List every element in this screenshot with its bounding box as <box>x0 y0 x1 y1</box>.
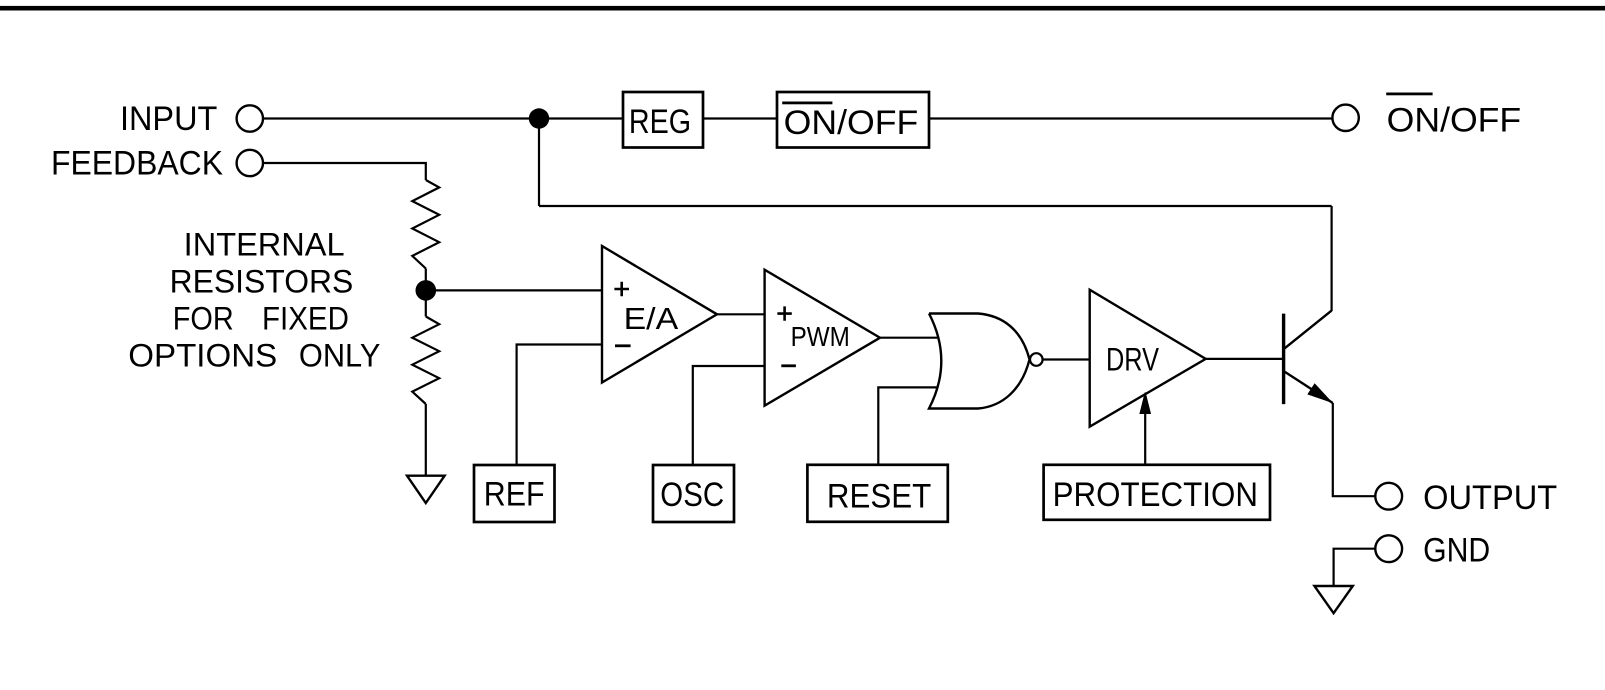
svg-text:DRV: DRV <box>1106 342 1160 378</box>
svg-text:OPTIONS: OPTIONS <box>128 337 277 373</box>
wire GND to ground <box>1334 549 1376 586</box>
wire INPUT to REG <box>263 117 623 119</box>
top border bar <box>0 6 1605 11</box>
transistor Q1 base bar <box>1282 314 1285 405</box>
svg-text:ON/OFF: ON/OFF <box>1387 102 1522 140</box>
comparator PWM <box>765 270 880 406</box>
terminal GND <box>1375 535 1402 562</box>
resistor R1 (upper divider) <box>412 180 439 269</box>
wire ON/OFF block to terminal <box>929 117 1332 119</box>
svg-text:E/A: E/A <box>624 301 679 336</box>
wire OSC to PWM - input <box>693 366 765 465</box>
gate output bubble <box>1030 353 1043 366</box>
wire collector riser <box>1330 206 1332 311</box>
wire emitter to OUTPUT <box>1333 403 1376 496</box>
svg-text:FIXED: FIXED <box>262 300 349 336</box>
wire R1 to node <box>425 269 427 282</box>
wire R2 to ground <box>425 404 427 476</box>
wire junction down <box>538 119 540 207</box>
transistor Q1 emitter <box>1285 372 1333 403</box>
svg-text:OUTPUT: OUTPUT <box>1423 479 1557 517</box>
terminal OUTPUT <box>1375 483 1402 510</box>
note text INTERNAL RESISTORS FOR FIXED OPTIONS ONLY <box>128 226 380 373</box>
wire RESET to gate <box>878 387 938 464</box>
wire DRV output to transistor base <box>1206 358 1284 360</box>
gate NOR <box>929 314 1030 409</box>
block RESET <box>807 465 947 522</box>
svg-text:REG: REG <box>629 103 691 141</box>
svg-text:OSC: OSC <box>660 476 724 514</box>
wire across top to collector riser <box>539 205 1332 207</box>
svg-text:ONLY: ONLY <box>299 337 381 373</box>
svg-text:FEEDBACK: FEEDBACK <box>51 145 223 183</box>
junction dot divider node <box>416 280 437 301</box>
block PROTECTION <box>1044 465 1270 520</box>
svg-text:ON/OFF: ON/OFF <box>784 104 919 142</box>
wire node to E/A + input <box>435 289 602 291</box>
wire node to R2 <box>425 299 427 317</box>
svg-text:INTERNAL: INTERNAL <box>184 226 345 262</box>
block REF <box>474 465 555 522</box>
terminal FEEDBACK <box>237 150 263 176</box>
wire PROTECTION arrow stem <box>1144 413 1146 465</box>
terminal INPUT <box>237 105 263 131</box>
wire PWM output to gate <box>880 337 938 339</box>
svg-text:REF: REF <box>484 476 545 514</box>
wire REG to ON/OFF block <box>703 117 777 119</box>
transistor Q1 collector <box>1285 311 1332 349</box>
resistor R2 (lower divider) <box>412 317 439 405</box>
op-amp E/A <box>602 246 717 383</box>
buffer DRV <box>1090 290 1206 427</box>
svg-text:GND: GND <box>1423 531 1490 569</box>
svg-text:RESISTORS: RESISTORS <box>170 263 354 299</box>
block ON/OFF <box>777 92 929 148</box>
ground (GND pin) <box>1314 586 1352 613</box>
block REG <box>623 92 703 148</box>
svg-text:FOR: FOR <box>173 300 234 336</box>
transistor Q1 emitter arrowhead <box>1308 384 1331 402</box>
wire bubble to DRV <box>1043 358 1090 360</box>
arrowhead PROTECTION to DRV <box>1140 393 1150 414</box>
svg-text:PWM: PWM <box>791 321 850 352</box>
svg-text:RESET: RESET <box>827 477 931 515</box>
wire E/A output to PWM + input <box>717 313 765 315</box>
svg-text:INPUT: INPUT <box>120 100 217 138</box>
junction dot input net <box>529 108 549 128</box>
svg-text:PROTECTION: PROTECTION <box>1053 476 1258 514</box>
label ON/OFF <box>1386 93 1521 140</box>
wire FEEDBACK to divider <box>263 163 426 180</box>
terminal ON/OFF <box>1332 105 1358 131</box>
ground (divider) <box>407 476 445 503</box>
block OSC <box>653 465 734 522</box>
wire REF to E/A - input <box>517 345 602 466</box>
